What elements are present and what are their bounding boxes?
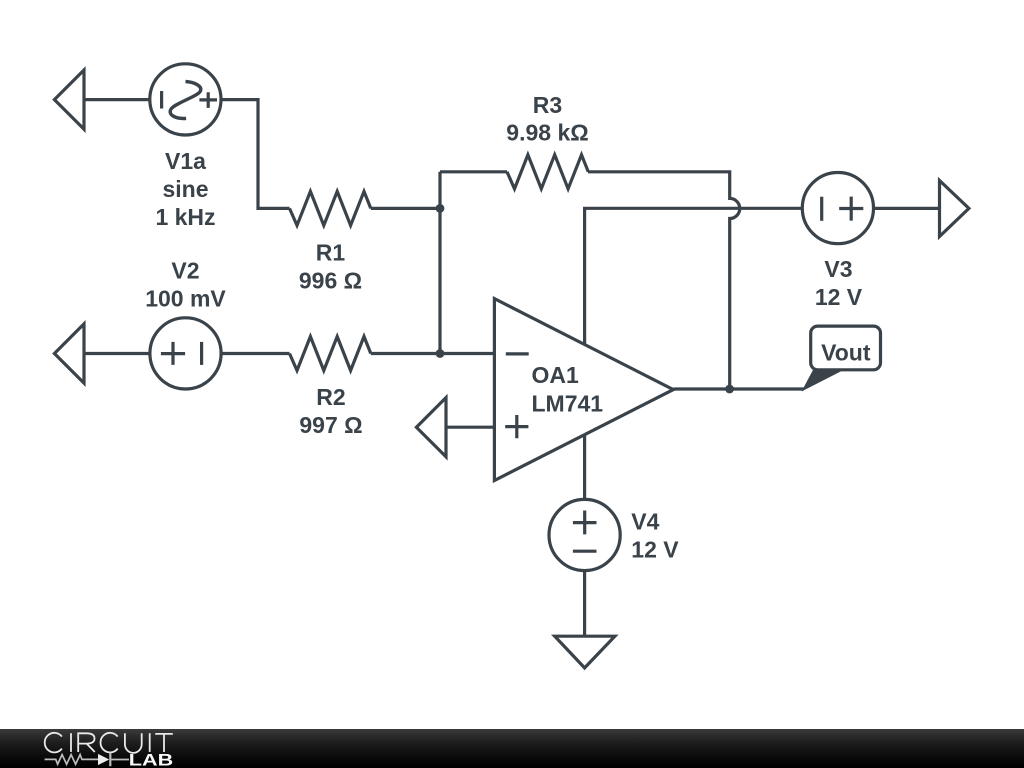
port P3 (op-amp non-inverting input) [416,398,446,457]
V1a plus sign [199,92,217,108]
svg-text:996 Ω: 996 Ω [299,267,362,293]
V1a sine squiggle [170,82,201,119]
logo resistor-diode line [45,753,129,766]
svg-text:9.98 kΩ: 9.98 kΩ [506,119,588,145]
V4 minus sign [573,550,597,553]
wire P1 to V1a [84,98,150,101]
svg-text:100 mV: 100 mV [145,285,226,311]
voltage source V1a (sine) [150,64,221,135]
logo CIRCUIT lettering [45,733,173,753]
wire V4 to ground [583,571,586,637]
Vout flag box [811,326,881,370]
port P2 (left, V2) [54,324,84,383]
voltage source V2 [150,318,221,389]
junction dot node A / R1 [436,204,445,213]
svg-text:R3: R3 [533,92,562,118]
junction dot node A / R2 [436,349,445,358]
wire R1 to node A [371,207,440,210]
V3 minus terminal mark [820,197,823,221]
svg-text:LM741: LM741 [532,391,604,417]
wire R2 to op-amp inverting input [371,352,495,355]
svg-text:LAB: LAB [129,751,173,768]
svg-text:Vout: Vout [821,340,871,366]
svg-text:R1: R1 [316,239,346,265]
svg-text:V4: V4 [631,508,659,534]
svg-text:V1a: V1a [165,148,206,174]
V1a minus terminal mark [160,91,163,109]
voltage source V3 [802,173,873,244]
wire P3 to op-amp [446,426,494,429]
svg-text:OA1: OA1 [532,362,580,388]
resistor R2 [290,337,371,371]
op-amp output wire [673,387,804,390]
V2 plus sign [161,342,185,365]
wire P2 to V2 [84,352,150,355]
logo diode triangle [98,754,109,765]
wire V3 to port P4 [874,207,940,210]
V2 minus terminal mark [200,342,203,365]
op-amp minus symbol [506,352,529,355]
wire node A to R3 [440,170,507,173]
resistor R3 [507,155,588,189]
svg-text:sine: sine [162,176,208,202]
wire V2 to R2 [221,352,290,355]
svg-text:V2: V2 [171,257,199,283]
wire V1a to R1 [221,100,290,209]
svg-text:997 Ω: 997 Ω [299,412,362,438]
voltage source V4 [549,499,620,570]
wire R3 to output node with hop over supply wire [588,172,740,389]
svg-text:12 V: 12 V [815,284,863,310]
op-amp V- pin wire to V4 [583,435,586,499]
wire opamp V+ pin to V3 [585,208,802,344]
ground symbol [555,636,615,668]
junction dot output node [725,385,734,394]
resistor R1 [290,191,371,225]
op-amp OA1 triangle [494,299,673,481]
V4 plus sign [573,511,597,535]
svg-text:1 kHz: 1 kHz [155,204,215,230]
svg-text:12 V: 12 V [631,536,679,562]
V3 plus sign [839,197,863,221]
svg-text:R2: R2 [316,384,345,410]
Vout flag pointer [802,369,846,392]
port P1 (left, V1a) [54,70,84,129]
op-amp plus symbol [505,415,528,438]
node A vertical wire [438,172,441,354]
svg-text:V3: V3 [824,256,852,282]
port P4 (output, right) [940,181,969,237]
